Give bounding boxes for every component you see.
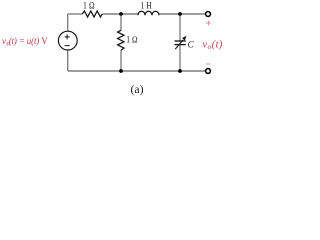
svg-text:vo(t): vo(t) [203, 39, 223, 51]
label vo(t) [203, 39, 223, 51]
wire middle branch lower [120, 50, 122, 71]
svg-text:vs(t) = u(t) V: vs(t) = u(t) V [2, 36, 48, 48]
wire capacitor branch lower [179, 45, 181, 71]
label vs(t) = u(t) V [2, 36, 48, 48]
voltage source Vs [58, 31, 77, 50]
label 1 ohm (middle resistor) [126, 35, 137, 45]
bottom output terminal [206, 69, 211, 74]
caption (a) [130, 82, 143, 96]
wire source to top rail [67, 14, 69, 31]
top output terminal [206, 12, 211, 17]
wire bottom rail [68, 70, 206, 72]
svg-text:C: C [188, 40, 195, 50]
wire source to bottom rail [67, 50, 69, 71]
capacitor C (variable, with arrow) [175, 36, 187, 49]
svg-text:1 H: 1 H [141, 0, 152, 11]
label 1 H [141, 0, 152, 11]
node A (junction R1 / middle resistor) [119, 12, 123, 16]
minus mark at bottom terminal [206, 63, 210, 65]
node capacitor branch bottom [178, 69, 182, 73]
wire capacitor branch upper [179, 14, 181, 41]
svg-text:(a): (a) [130, 82, 143, 96]
wire between R1 and node A [102, 13, 138, 15]
wire between L1 and top terminal [159, 13, 206, 15]
resistor R2 1 ohm (middle vertical) [118, 30, 124, 50]
label 1 ohm (top resistor) [83, 0, 95, 11]
svg-text:1 Ω: 1 Ω [83, 0, 95, 11]
plus mark at top terminal [206, 21, 211, 26]
resistor R1 1 ohm (top horizontal) [82, 11, 102, 17]
svg-text:1 Ω: 1 Ω [126, 35, 137, 45]
node middle branch bottom [119, 69, 123, 73]
label C [188, 40, 195, 50]
wire top rail left segment [68, 13, 83, 15]
inductor L1 1 H [138, 11, 159, 15]
wire middle branch upper [120, 14, 122, 30]
node B (junction L1 / capacitor) [178, 12, 182, 16]
